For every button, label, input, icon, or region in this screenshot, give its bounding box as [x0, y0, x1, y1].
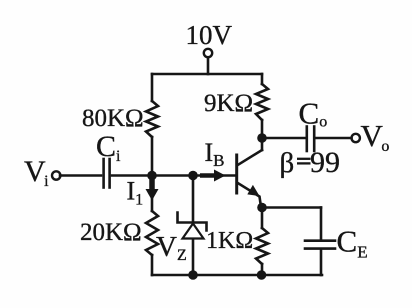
terminal Vi: [52, 171, 60, 179]
resistor R1 80KΩ: [146, 101, 158, 137]
wire Co to output: [317, 137, 352, 140]
wire left column mid: [151, 137, 154, 176]
transistor Q1 collector lead: [238, 150, 262, 165]
svg-text:20KΩ: 20KΩ: [80, 219, 142, 246]
wire emitter column: [261, 208, 264, 229]
transistor Q1 emitter lead: [238, 183, 261, 207]
zener diode VZ cathode bar: [178, 213, 207, 231]
node dot input junction: [147, 171, 157, 181]
node dot zener-ground: [188, 270, 198, 280]
wire left column upper: [151, 74, 154, 101]
wire top rail: [152, 73, 262, 76]
terminal 10V: [204, 49, 212, 57]
capacitor C_i: [104, 159, 110, 188]
wire CE branch down upper: [320, 208, 323, 240]
current arrow I1: [149, 176, 155, 190]
wire 20K to bottom rail: [151, 255, 154, 275]
svg-text:10V: 10V: [186, 20, 233, 50]
resistor R2 20KΩ: [146, 211, 158, 255]
svg-text:1KΩ: 1KΩ: [206, 228, 253, 254]
current arrow IB: [200, 173, 215, 178]
transistor Q1 base bar: [235, 155, 238, 193]
node dot 1K-ground: [257, 270, 267, 280]
wire 1K to bottom rail: [261, 264, 264, 275]
svg-text:80KΩ: 80KΩ: [82, 105, 144, 132]
wire 9K to collector node: [261, 120, 264, 150]
wire input to Ci: [60, 174, 101, 177]
svg-text:Vi: Vi: [24, 155, 49, 190]
wire Ci to base node: [112, 174, 236, 177]
svg-text:99: 99: [310, 146, 340, 179]
capacitor C_o: [307, 127, 314, 152]
wire CE branch down lower: [320, 250, 323, 275]
svg-text:9KΩ: 9KΩ: [204, 90, 253, 117]
wire collector to Co: [262, 137, 305, 140]
wire zener to bottom rail: [192, 239, 195, 276]
label = sign: [297, 159, 311, 164]
node dot emitter: [257, 203, 267, 213]
wire left column lower: [151, 176, 154, 212]
wire emitter to CE branch: [262, 206, 321, 209]
wire bottom rail: [152, 274, 322, 277]
resistor R3 9KΩ: [256, 84, 268, 120]
terminal Vo: [352, 134, 360, 142]
node dot base junction: [188, 171, 198, 181]
transistor Q1 emitter arrowhead: [247, 185, 259, 196]
wire zener branch upper: [192, 176, 195, 223]
zener diode VZ triangle: [183, 224, 204, 239]
wire 10V stub: [207, 58, 210, 75]
node dot collector: [257, 133, 267, 143]
capacitor C_E: [305, 241, 335, 249]
resistor R4 1KΩ: [256, 228, 268, 264]
wire right column upper: [261, 74, 264, 84]
svg-text:β: β: [280, 147, 295, 179]
